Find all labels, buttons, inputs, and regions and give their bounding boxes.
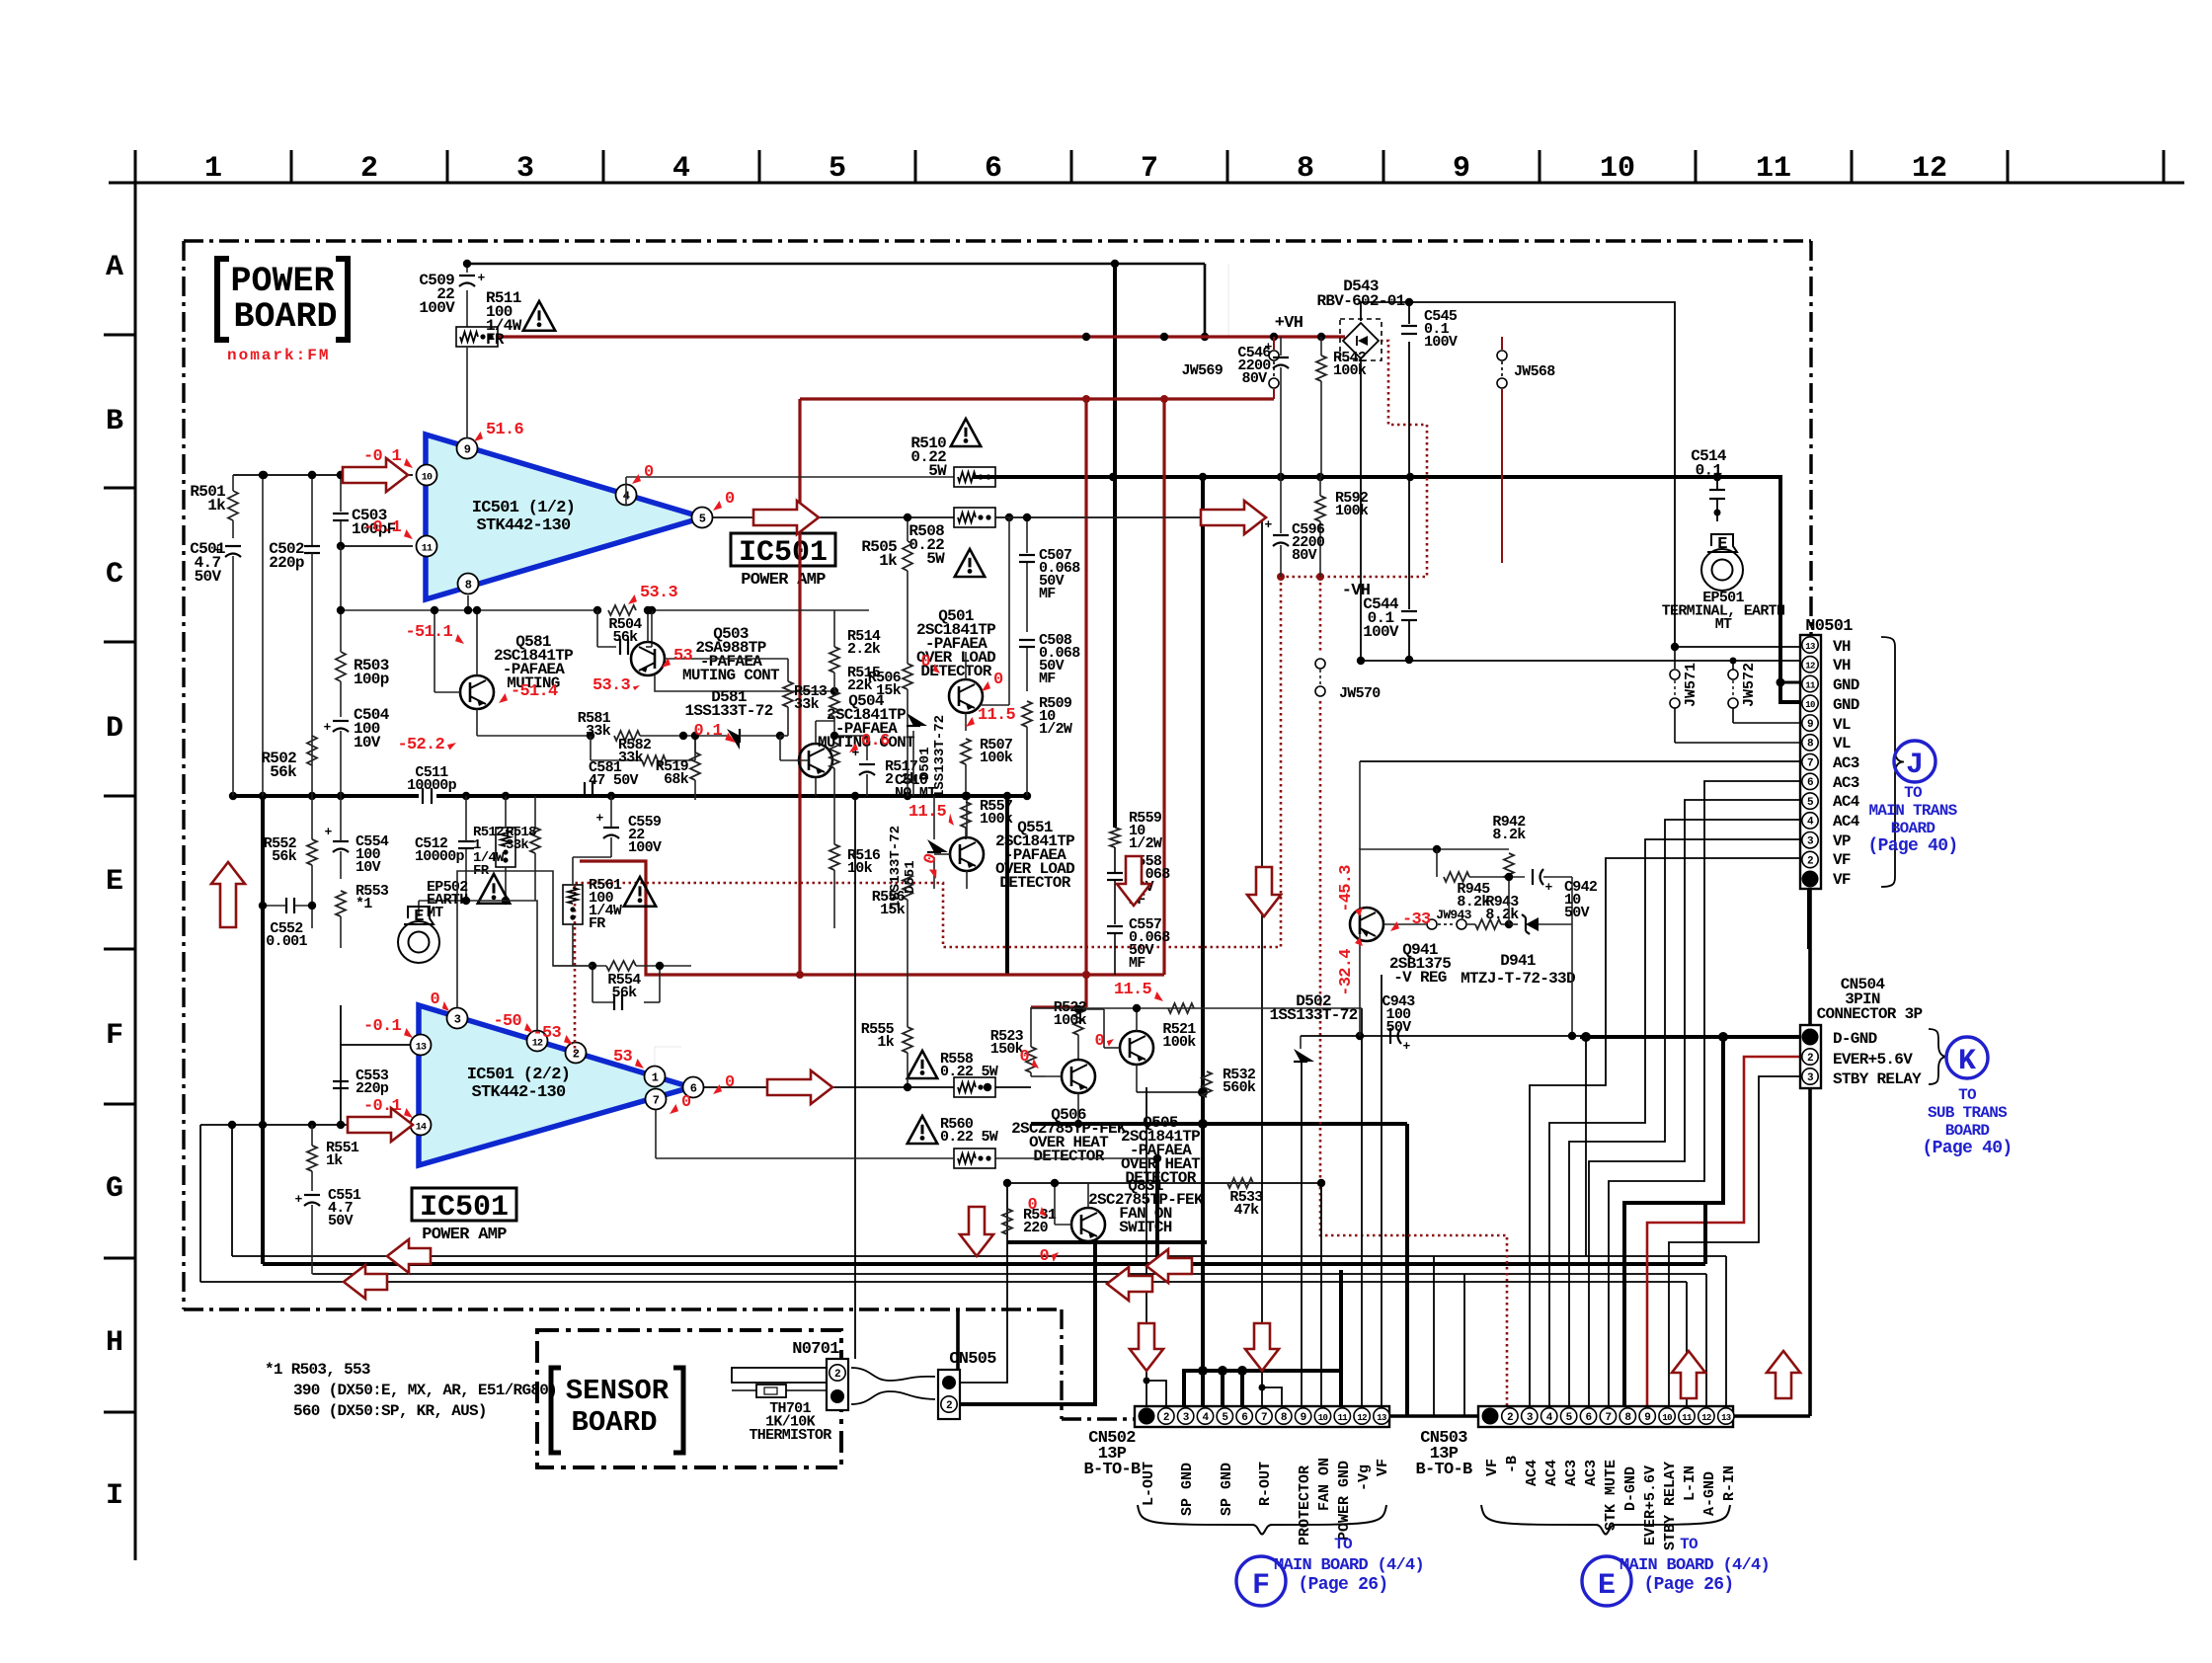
svg-text:-51.4: -51.4: [511, 682, 558, 701]
resistor R945: [1436, 849, 1438, 877]
svg-text:DETECTOR: DETECTOR: [1033, 1148, 1104, 1165]
svg-text:+: +: [324, 825, 332, 839]
wire bus y1290: [313, 1273, 1706, 1275]
svg-text:100k: 100k: [1335, 503, 1369, 519]
svg-text:7: 7: [653, 1094, 660, 1108]
wire pin3 drop: [457, 871, 592, 1007]
svg-text:9: 9: [464, 443, 471, 457]
volt 0 Q831e: [1052, 1252, 1059, 1262]
wire SP GND bus above CN502: [1339, 1270, 1343, 1371]
svg-text:-V REG: -V REG: [1393, 969, 1447, 987]
svg-text:+: +: [323, 720, 331, 735]
wire thick y806 bus: [233, 794, 419, 798]
capacitor C552: [285, 898, 287, 913]
wire CN503 pin11 riser: [1686, 1282, 1688, 1406]
capacitor C504: [340, 681, 342, 717]
svg-text:220p: 220p: [269, 554, 304, 572]
op-amp IC501 (2/2) triangle U1b: [419, 1005, 691, 1165]
arrow up CN503p11: [1672, 1351, 1705, 1398]
svg-text:*1 R503, 553: *1 R503, 553: [265, 1361, 370, 1379]
svg-text:D501: D501: [917, 747, 933, 780]
wire pin12 fb: [466, 901, 537, 1030]
wire -VH dotted left branch: [575, 577, 1281, 1053]
svg-text:B-TO-B: B-TO-B: [1415, 1461, 1472, 1479]
wire ch2 input: [200, 1124, 410, 1126]
svg-text:2: 2: [573, 1048, 580, 1062]
wire pin4 to R510: [625, 477, 627, 506]
wire bus y1272: [232, 1255, 1726, 1257]
wire stair VF-N0501pin2: [1530, 858, 1800, 1406]
volt 53.3 Q503: [628, 594, 637, 604]
svg-text:1: 1: [204, 152, 222, 186]
warning triangle R511: [523, 301, 555, 331]
wire stair STBY-CN504pin3: [1669, 1076, 1802, 1406]
diode D501: [912, 713, 914, 731]
svg-text:3: 3: [454, 1013, 461, 1027]
resistor R511 fusible: [456, 327, 498, 347]
capacitor C514: [1713, 473, 1721, 481]
capacitor C553: [333, 1080, 349, 1082]
svg-text:+VH: +VH: [1275, 314, 1303, 333]
svg-text:-Vg: -Vg: [1356, 1465, 1373, 1491]
svg-text:JW569: JW569: [1181, 362, 1223, 379]
svg-text:VH: VH: [1833, 657, 1851, 674]
terminal EP501 earth: [1707, 534, 1737, 552]
svg-text:AC3: AC3: [1833, 774, 1859, 792]
svg-text:RBV-602-01: RBV-602-01: [1316, 292, 1404, 310]
resistor R582: [642, 755, 666, 765]
svg-text:13: 13: [1721, 1413, 1731, 1423]
wire VH pin13: [1675, 646, 1800, 648]
arrow left y1272: [387, 1239, 431, 1273]
wire N0701 riser: [854, 796, 856, 1359]
svg-text:12: 12: [1912, 152, 1947, 186]
svg-text:50V: 50V: [1386, 1019, 1412, 1036]
jumper JW943: [1427, 919, 1437, 929]
capacitor C512: [458, 840, 474, 842]
cable N0701-CN505: [851, 1368, 935, 1381]
volt -53 pin2: [564, 1035, 573, 1045]
svg-text:IC501: IC501: [420, 1191, 509, 1225]
thermistor TH701: [732, 1368, 827, 1383]
svg-text:JW568: JW568: [1514, 363, 1555, 380]
mark -32.4 wedge: [1355, 937, 1363, 946]
svg-text:12: 12: [1701, 1413, 1711, 1423]
svg-text:POWER AMP: POWER AMP: [422, 1226, 507, 1244]
resistor R559: [1110, 828, 1120, 847]
svg-text:D941: D941: [1500, 952, 1536, 970]
wire Q503-R514 node: [868, 609, 870, 611]
svg-text:BOARD: BOARD: [1945, 1122, 1990, 1140]
resistor R542: [1316, 356, 1326, 381]
wire +B rail x1129: [1113, 264, 1117, 828]
svg-text:100V: 100V: [628, 839, 662, 856]
wire CN502 pin9 riser: [1301, 1063, 1303, 1406]
svg-text:-50: -50: [493, 1012, 521, 1031]
brace J N0501: [1881, 637, 1904, 887]
svg-text:VF: VF: [1375, 1459, 1391, 1476]
capacitor C510: [866, 736, 868, 760]
capacitor C545: [1408, 302, 1410, 324]
junction F circle: [1236, 1556, 1286, 1606]
svg-text:1SS133T-72: 1SS133T-72: [932, 715, 948, 798]
svg-text:10k: 10k: [847, 860, 873, 877]
svg-text:G: G: [106, 1172, 123, 1206]
svg-text:VH: VH: [1833, 638, 1851, 656]
svg-text:56k: 56k: [613, 629, 639, 646]
capacitor C511: [422, 788, 424, 804]
transistor Q506: [1062, 1060, 1095, 1093]
volt -45.3 Q941: [1337, 865, 1356, 912]
volt 11.5 Q501c: [966, 717, 975, 727]
wire stair AC3-N0501pin6: [1609, 781, 1800, 1406]
wire rail x266 thick: [262, 475, 264, 796]
volt -0.1 pin13: [404, 1028, 413, 1038]
svg-text:2: 2: [834, 1369, 840, 1381]
svg-text:VL: VL: [1833, 716, 1851, 734]
svg-text:7: 7: [1261, 1412, 1267, 1424]
svg-text:SENSOR: SENSOR: [566, 1375, 670, 1407]
svg-text:6: 6: [690, 1082, 697, 1096]
svg-text:TO: TO: [1680, 1536, 1698, 1553]
svg-text:N0701: N0701: [792, 1340, 839, 1359]
svg-text:-0.1: -0.1: [363, 447, 402, 466]
svg-text:56k: 56k: [272, 848, 297, 865]
svg-text:SP GND: SP GND: [1219, 1463, 1235, 1516]
svg-text:+: +: [1264, 517, 1272, 532]
svg-text:MTZJ-T-72-33D: MTZJ-T-72-33D: [1461, 970, 1575, 988]
resistor R561 fusible: [563, 885, 583, 924]
capacitor C544: [1408, 342, 1410, 609]
svg-text:EVER+5.6V: EVER+5.6V: [1833, 1051, 1913, 1069]
svg-text:POWER GND: POWER GND: [1336, 1461, 1353, 1541]
svg-text:47 50V: 47 50V: [589, 772, 639, 789]
svg-text:10000p: 10000p: [407, 777, 457, 794]
svg-text:IC501 (1/2): IC501 (1/2): [472, 499, 576, 517]
svg-text:80V: 80V: [1242, 370, 1268, 387]
svg-text:11.5: 11.5: [978, 706, 1016, 725]
svg-text:E: E: [1717, 535, 1727, 554]
svg-text:560 (DX50:SP, KR, AUS): 560 (DX50:SP, KR, AUS): [293, 1402, 487, 1420]
resistor R560 fusible: [954, 1148, 995, 1168]
svg-text:0.001: 0.001: [266, 933, 307, 950]
svg-text:15k: 15k: [880, 902, 906, 918]
svg-text:(Page 40): (Page 40): [1868, 836, 1958, 856]
resistor R504 loop: [608, 605, 636, 615]
arrow left y1298mid: [1107, 1267, 1152, 1301]
svg-text:5W: 5W: [928, 462, 947, 480]
wire fb node ch1: [341, 545, 413, 547]
transistor Q504: [799, 744, 832, 777]
svg-text:B: B: [106, 405, 123, 438]
POWER BOARD title: [217, 259, 229, 340]
wire bus y1298: [200, 1281, 1687, 1283]
svg-text:EVER+5.6V: EVER+5.6V: [1642, 1465, 1659, 1545]
border frame ruler: [109, 182, 2184, 185]
transistor Q551: [950, 837, 984, 871]
resistor R551: [307, 1146, 317, 1171]
svg-text:100k: 100k: [980, 750, 1013, 766]
svg-text:*1: *1: [355, 896, 372, 912]
resistor R532: [1202, 1071, 1212, 1097]
volt -50 pin12: [524, 1023, 533, 1033]
resistor R501: [228, 491, 238, 520]
svg-text:GND: GND: [1833, 696, 1859, 714]
svg-text:MT: MT: [1715, 616, 1732, 633]
svg-text:TO: TO: [1334, 1536, 1353, 1553]
volt 0.6 Q504e: [849, 743, 858, 752]
resistor R555: [903, 1027, 912, 1053]
svg-text:BOARD: BOARD: [233, 297, 337, 337]
svg-text:THERMISTOR: THERMISTOR: [749, 1427, 831, 1444]
svg-text:100V: 100V: [1363, 623, 1399, 641]
svg-text:8: 8: [1297, 152, 1314, 186]
svg-text:0.22 5W: 0.22 5W: [940, 1129, 998, 1146]
wire x1218 down to CN502: [1201, 477, 1205, 1406]
transistor Q831: [1071, 1208, 1105, 1241]
wire bridge top rail y306: [1361, 302, 1675, 647]
svg-text:13: 13: [1377, 1413, 1386, 1423]
arrow left y1298: [344, 1265, 387, 1299]
svg-text:14: 14: [416, 1123, 427, 1134]
svg-text:0: 0: [920, 653, 930, 672]
resistor R512 fusible: [496, 828, 515, 867]
svg-text:33k: 33k: [794, 696, 820, 713]
resistor R519: [690, 752, 700, 780]
wire ch1 fb: [341, 545, 413, 547]
svg-text:+: +: [477, 271, 485, 285]
terminal EP502 earth: [404, 907, 434, 924]
pin 12 of U1b: [527, 1031, 548, 1052]
svg-text:D-GND: D-GND: [1622, 1466, 1639, 1511]
svg-text:53.3: 53.3: [592, 676, 631, 695]
svg-text:1k: 1k: [326, 1152, 343, 1169]
svg-text:E: E: [1598, 1569, 1616, 1603]
warning triangle R560: [908, 1116, 937, 1144]
wire DGND bus y1050: [1301, 1035, 1580, 1037]
svg-text:390 (DX50:E, MX, AR, E51/RG80): 390 (DX50:E, MX, AR, E51/RG80): [293, 1382, 557, 1399]
svg-text:AC3: AC3: [1563, 1460, 1580, 1486]
svg-text:VL: VL: [1833, 735, 1851, 752]
wire stair DGND thick: [1624, 1037, 1723, 1406]
svg-text:11: 11: [1756, 152, 1791, 186]
svg-text:D: D: [106, 712, 123, 746]
wire -VH dotted main: [1281, 341, 1427, 577]
capacitor C507: [1026, 517, 1028, 553]
wire pin1 53 node: [655, 1047, 681, 1066]
wire stair VP-N0501pin3: [1549, 839, 1800, 1406]
svg-text:11.5: 11.5: [1114, 981, 1152, 999]
IC501 label box 1: [731, 533, 835, 566]
wire left rail x266 low thick: [261, 796, 265, 1264]
svg-text:PROTECTOR: PROTECTOR: [1297, 1465, 1313, 1545]
wire red y404 run: [800, 397, 1274, 400]
resistor R502: [311, 691, 313, 733]
svg-text:2: 2: [946, 1400, 952, 1412]
svg-text:AC3: AC3: [1833, 754, 1859, 772]
jumper JW570: [1315, 659, 1325, 669]
wire VH pin12 y668: [1361, 660, 1800, 662]
pin 7 of U1b: [646, 1089, 667, 1110]
svg-text:10: 10: [1805, 700, 1815, 710]
svg-text:100k: 100k: [1162, 1034, 1196, 1051]
svg-text:(Page 26): (Page 26): [1644, 1575, 1734, 1595]
capacitor C596: [1280, 477, 1282, 533]
svg-text:53: 53: [613, 1048, 633, 1067]
svg-text:MF: MF: [1039, 586, 1056, 602]
svg-text:9: 9: [1453, 152, 1470, 186]
resistor R523: [1026, 1047, 1036, 1072]
junction J circle: [1894, 741, 1935, 782]
svg-text:53.3: 53.3: [640, 584, 678, 602]
svg-text:AC4: AC4: [1833, 793, 1860, 811]
pin 4 of U1a: [616, 485, 637, 506]
svg-text:D-GND: D-GND: [1833, 1030, 1877, 1048]
svg-text:MT: MT: [427, 905, 443, 921]
svg-text:0: 0: [1027, 1196, 1037, 1215]
brace K CN504: [1929, 1029, 1947, 1084]
svg-text:A: A: [106, 251, 123, 284]
svg-text:33k: 33k: [618, 750, 644, 766]
svg-text:5W: 5W: [926, 550, 945, 568]
resistor R943: [1475, 919, 1501, 929]
volt -33 Q941e: [1390, 921, 1399, 931]
svg-text:2: 2: [1807, 1053, 1813, 1065]
svg-text:-0.1: -0.1: [363, 1017, 402, 1036]
capacitor C554: [333, 840, 349, 842]
svg-text:F: F: [1252, 1569, 1270, 1603]
wire CN503 pin12 riser: [1705, 1274, 1707, 1406]
svg-text:H: H: [106, 1326, 123, 1360]
svg-text:2.2k: 2.2k: [847, 641, 881, 658]
svg-text:13: 13: [416, 1043, 427, 1054]
resistor R505: [907, 517, 908, 541]
resistor R515: [829, 691, 839, 717]
transistor Q581: [460, 675, 494, 709]
power board border: [184, 239, 1811, 242]
svg-text:10V: 10V: [355, 859, 381, 876]
svg-text:11: 11: [1682, 1413, 1693, 1423]
wire VL pin8: [1675, 742, 1800, 744]
svg-text:0.1: 0.1: [693, 722, 722, 741]
wire red drop x1100: [1084, 399, 1087, 1007]
svg-text:L-OUT: L-OUT: [1141, 1462, 1157, 1506]
svg-text:TO: TO: [1958, 1086, 1977, 1104]
diode D502: [1294, 1049, 1314, 1062]
svg-text:220p: 220p: [355, 1080, 389, 1097]
resistor R552: [307, 839, 317, 865]
resistor R522: [1073, 1009, 1083, 1035]
resistor R942: [1504, 853, 1514, 879]
svg-text:CONNECTOR 3P: CONNECTOR 3P: [1817, 1005, 1923, 1023]
svg-text:N0501: N0501: [1805, 617, 1853, 636]
volt 53 Q503e: [662, 658, 671, 668]
wire x1172 rail: [1155, 1158, 1159, 1264]
svg-text:100V: 100V: [1424, 334, 1458, 351]
volt -0.1 pin11: [404, 529, 413, 539]
wire -VH dotted down branch: [1319, 577, 1322, 652]
junction K circle: [1946, 1037, 1988, 1078]
wire red drop x1179: [1162, 399, 1165, 975]
svg-text:1/2W: 1/2W: [1129, 835, 1162, 852]
wire top rail y267: [467, 263, 1205, 266]
svg-text:-53: -53: [532, 1024, 561, 1043]
wire pin5 out: [713, 516, 954, 518]
resistor R518: [530, 828, 540, 853]
svg-text:DETECTOR: DETECTOR: [999, 874, 1070, 892]
svg-text:100V: 100V: [419, 299, 455, 317]
brace E CN503: [1481, 1505, 1730, 1535]
svg-text:0: 0: [725, 1073, 735, 1092]
svg-text:VF: VF: [1833, 871, 1851, 889]
arrow down CN502p7: [1245, 1323, 1279, 1371]
wire VL pin9: [1733, 722, 1800, 724]
volt -0.1 pin14: [404, 1108, 413, 1118]
op-amp IC501 (1/2) triangle U1a: [426, 435, 703, 599]
svg-text:6: 6: [1586, 1412, 1592, 1424]
wire bus y1280 thick: [263, 1262, 1705, 1266]
svg-text:12: 12: [1805, 662, 1815, 672]
svg-text:-VH: -VH: [1342, 582, 1371, 600]
wire fanon y1198: [1007, 1182, 1321, 1184]
volt -51.1 Q581: [455, 634, 464, 644]
volt 51.6 pin9: [474, 432, 483, 441]
svg-text:33k: 33k: [506, 837, 528, 853]
svg-text:-0.1: -0.1: [363, 518, 402, 537]
resistor R517: [829, 743, 839, 768]
svg-text:0: 0: [725, 490, 735, 509]
svg-text:13: 13: [1805, 642, 1815, 652]
svg-text:10: 10: [1318, 1413, 1328, 1423]
svg-text:-B: -B: [1504, 1456, 1521, 1473]
svg-text:+: +: [1544, 880, 1552, 895]
resistor R503: [340, 546, 342, 652]
svg-text:TO: TO: [1904, 784, 1923, 802]
svg-text:0: 0: [681, 1093, 691, 1112]
capacitor C503: [340, 475, 342, 512]
svg-text:56k: 56k: [270, 763, 297, 781]
svg-text:11: 11: [422, 544, 433, 555]
svg-text:B-TO-B: B-TO-B: [1083, 1461, 1141, 1479]
svg-text:-45.3: -45.3: [1337, 865, 1356, 912]
transistor Q505: [1120, 1031, 1153, 1065]
wire zener to DGND: [1571, 924, 1573, 1036]
volt -32.4 Q941c: [1337, 949, 1356, 996]
svg-text:6: 6: [1241, 1412, 1247, 1424]
connector CN503: [1478, 1406, 1733, 1427]
volt -0.1 pin10: [404, 458, 413, 468]
svg-text:SP GND: SP GND: [1179, 1463, 1196, 1516]
volt 0 pin6: [713, 1084, 722, 1094]
warning triangle R561: [624, 877, 656, 907]
pin 1 of U1b: [645, 1067, 666, 1087]
jumper JW569: [1273, 337, 1275, 350]
svg-text:5: 5: [699, 513, 706, 526]
warning triangle R508: [955, 549, 985, 577]
transistor Q503: [631, 642, 665, 675]
transistor Q501: [949, 679, 983, 713]
svg-text:1k: 1k: [877, 1034, 894, 1051]
svg-text:10000p: 10000p: [415, 848, 465, 865]
resistor R553: [336, 891, 346, 916]
resistor R556: [903, 874, 912, 900]
diode D581: [683, 735, 727, 737]
capacitor C557: [1107, 925, 1123, 927]
svg-text:-33: -33: [1402, 911, 1431, 929]
svg-text:1SS133T-72: 1SS133T-72: [1269, 1006, 1357, 1024]
mark -45.3 wedge: [1355, 908, 1363, 916]
svg-text:51.6: 51.6: [486, 421, 524, 439]
